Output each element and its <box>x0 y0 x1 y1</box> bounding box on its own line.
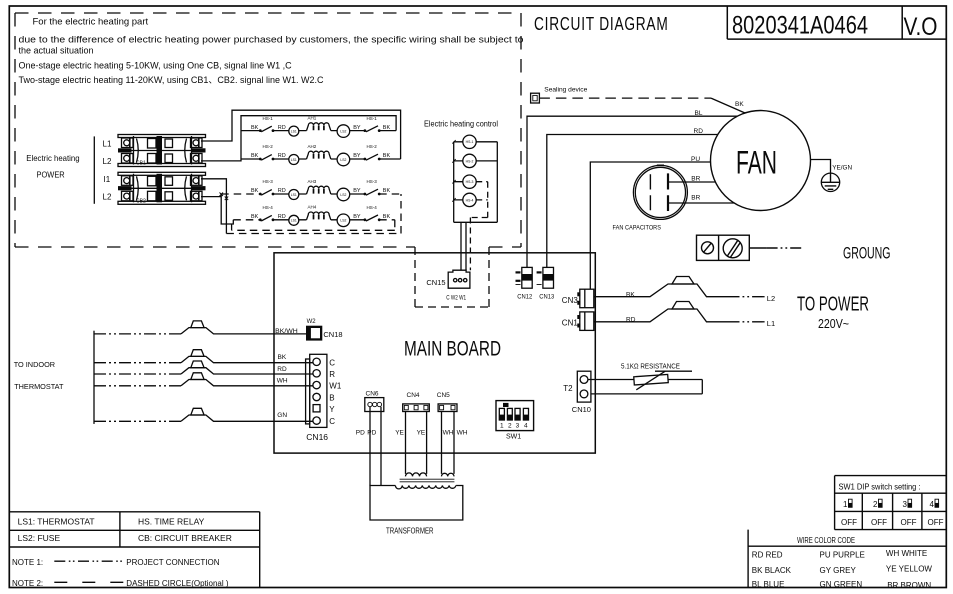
connector CN12 <box>516 267 533 300</box>
title block dividers <box>727 6 946 39</box>
svg-text:BR: BR <box>691 195 700 202</box>
relay row 2: contact HS-2, heater AH2 <box>241 144 401 166</box>
wire RD from CN1 to power L1 <box>594 309 727 322</box>
svg-text:TO INDOOR: TO INDOOR <box>14 360 56 369</box>
svg-text:CN3: CN3 <box>562 296 579 305</box>
svg-text:T2: T2 <box>563 384 573 393</box>
svg-text:C: C <box>329 358 335 367</box>
svg-text:HS-1: HS-1 <box>466 140 474 144</box>
connector CN1 <box>562 312 594 331</box>
svg-text:HS-4: HS-4 <box>263 205 274 210</box>
connector CN3 <box>562 289 594 308</box>
svg-text:AH2: AH2 <box>308 144 317 149</box>
svg-text:HS-3: HS-3 <box>263 179 274 184</box>
svg-text:2: 2 <box>873 500 878 509</box>
svg-text:GROUNG: GROUNG <box>843 243 891 262</box>
svg-text:OFF: OFF <box>901 518 917 527</box>
DIP switch setting table <box>835 476 947 530</box>
svg-text:CN12: CN12 <box>517 293 532 300</box>
transformer body and primary winding <box>370 486 463 521</box>
svg-text:due to the difference of elect: due to the difference of electric heatin… <box>19 35 524 45</box>
svg-text:HS-3: HS-3 <box>466 180 474 184</box>
dashed enclosure of electric-heating optional section <box>15 13 521 247</box>
svg-text:GN: GN <box>277 412 287 419</box>
connector CN4 <box>403 392 430 411</box>
svg-text:For the electric heating part: For the electric heating part <box>33 17 149 28</box>
label leader line <box>655 370 692 372</box>
svg-text:PU: PU <box>691 156 700 163</box>
fan motor circle <box>711 111 811 211</box>
grommet on RD wire <box>672 302 694 310</box>
svg-text:SW1 DIP switch setting :: SW1 DIP switch setting : <box>839 482 921 491</box>
relay row 1: contact HS-1, thermostat LS1, heater AH1, fuse LS2 <box>241 115 396 137</box>
svg-text:the actual situation: the actual situation <box>19 46 94 56</box>
connector CN5 <box>437 392 457 411</box>
svg-text:L1: L1 <box>103 140 112 149</box>
wire BK from CN3 to power L2 <box>594 284 727 297</box>
wire L2 from CB2 to row 4 feed <box>201 194 233 224</box>
svg-text:3: 3 <box>516 423 520 430</box>
secondary winding bumps CN5 <box>442 473 455 476</box>
svg-text:B: B <box>329 394 334 403</box>
svg-text:MAIN BOARD: MAIN BOARD <box>404 337 501 360</box>
svg-text:PD: PD <box>367 430 376 437</box>
dashed return wire of row 3 <box>226 194 401 234</box>
svg-text:8020341A0464: 8020341A0464 <box>732 12 868 40</box>
circuit breaker CB2 <box>118 172 206 204</box>
svg-text:TRANSFORMER: TRANSFORMER <box>386 527 434 536</box>
svg-text:HS-4: HS-4 <box>466 198 474 202</box>
svg-text:YE YELLOW: YE YELLOW <box>886 564 933 573</box>
svg-text:RD: RD <box>626 316 636 323</box>
svg-text:GN GREEN: GN GREEN <box>820 580 863 589</box>
dashed optional bus for HS-3 HS-4 <box>470 182 487 271</box>
svg-text:BK/WH: BK/WH <box>275 328 298 335</box>
thermostat bus <box>93 331 95 424</box>
svg-text:HS-4: HS-4 <box>367 205 378 210</box>
resistor 5.1KOhm body <box>634 374 668 385</box>
relay coil HS-3 <box>463 175 476 188</box>
svg-text:CIRCUIT DIAGRAM: CIRCUIT DIAGRAM <box>534 14 669 34</box>
connector CN6 <box>365 391 384 412</box>
svg-text:SW1: SW1 <box>506 433 521 440</box>
relay coil HS-1 <box>463 135 476 148</box>
svg-text:HS-1: HS-1 <box>263 116 274 121</box>
svg-text:AH4: AH4 <box>308 205 317 210</box>
svg-text:Electric heating: Electric heating <box>26 153 80 163</box>
svg-text:L1: L1 <box>767 319 775 328</box>
svg-text:HS-2: HS-2 <box>263 144 274 149</box>
svg-text:RD: RD <box>277 366 287 373</box>
control left bus wire <box>453 142 455 223</box>
svg-text:CN16: CN16 <box>306 432 328 442</box>
svg-text:3: 3 <box>903 500 908 509</box>
svg-text:WH WHITE: WH WHITE <box>886 549 927 558</box>
bus tick marks <box>452 140 455 202</box>
wire BK to CN16 pin C <box>94 362 181 364</box>
svg-text:Electric heating control: Electric heating control <box>424 119 498 128</box>
relay coil HS-4 <box>463 193 476 206</box>
svg-text:FAN CAPACITORS: FAN CAPACITORS <box>613 225 662 232</box>
wire L2 from CB1 to relay row 1 return <box>201 116 396 161</box>
wire WH to CN16 pin W1 <box>94 385 181 387</box>
svg-text:YE: YE <box>417 430 426 437</box>
svg-text:OFF: OFF <box>928 518 944 527</box>
svg-text:L2: L2 <box>103 157 112 166</box>
svg-text:PU PURPLE: PU PURPLE <box>820 551 865 560</box>
svg-text:Y: Y <box>329 405 335 414</box>
svg-text:W2: W2 <box>307 319 317 325</box>
dashed return wire of row 4 <box>232 220 395 231</box>
svg-text:220V~: 220V~ <box>818 316 849 331</box>
svg-text:CB: CIRCUIT BREAKER: CB: CIRCUIT BREAKER <box>138 533 232 543</box>
svg-text:BK: BK <box>735 101 744 108</box>
svg-text:BK BLACK: BK BLACK <box>752 566 792 575</box>
connector CN18 <box>306 319 343 341</box>
svg-text:BL BLUE: BL BLUE <box>752 580 785 589</box>
sealing device <box>531 86 588 103</box>
svg-text:BR BROWN: BR BROWN <box>887 581 931 590</box>
svg-text:OFF: OFF <box>871 518 887 527</box>
transformer secondary wires from CN5 <box>442 412 455 474</box>
svg-text:WH: WH <box>443 430 454 437</box>
svg-text:CN18: CN18 <box>323 330 342 339</box>
svg-text:NOTE 2:: NOTE 2: <box>12 579 43 588</box>
svg-text:4: 4 <box>524 423 528 430</box>
svg-text:HS-2: HS-2 <box>466 159 474 163</box>
coil stubs <box>454 142 498 200</box>
svg-text:CB2: CB2 <box>136 198 146 204</box>
svg-text:HS-3: HS-3 <box>367 179 378 184</box>
wire RD to CN16 pin R <box>94 373 181 375</box>
svg-text:4: 4 <box>930 500 935 509</box>
svg-text:DASHED CIRCLE(Optional ): DASHED CIRCLE(Optional ) <box>126 579 229 588</box>
svg-text:CN4: CN4 <box>407 392 420 399</box>
svg-text:2: 2 <box>508 423 512 430</box>
svg-text:Two-stage electric heating 11-: Two-stage electric heating 11-20KW, usin… <box>19 75 324 85</box>
wire color code table <box>748 530 946 588</box>
svg-text:TO POWER: TO POWER <box>797 293 869 315</box>
ground terminal block <box>697 235 804 260</box>
ground wire with dash-dot <box>749 247 766 249</box>
transformer secondary wires from CN4 <box>406 412 427 474</box>
wire L1 from CB1 to relay row 2 return <box>201 110 401 159</box>
main board outline <box>274 253 595 453</box>
svg-text:CN6: CN6 <box>366 391 379 398</box>
svg-text:CB1: CB1 <box>136 161 146 167</box>
control right bus wire <box>454 142 498 223</box>
svg-text:W1: W1 <box>329 382 342 391</box>
svg-text:YE/GN: YE/GN <box>832 165 852 172</box>
svg-text:BK: BK <box>278 354 287 361</box>
DIP switch SW1 <box>496 401 534 441</box>
dashed box around CN15 <box>415 247 489 307</box>
svg-text:L2: L2 <box>767 294 775 303</box>
svg-text:WH: WH <box>457 430 468 437</box>
wire PU from CN3 to fan <box>590 162 710 289</box>
svg-text:FAN: FAN <box>736 144 777 180</box>
svg-text:CN1: CN1 <box>562 319 579 328</box>
svg-text:HS. TIME RELAY: HS. TIME RELAY <box>138 516 205 526</box>
svg-text:I1: I1 <box>104 175 111 184</box>
svg-text:1: 1 <box>500 423 504 430</box>
svg-text:LS1: THERMOSTAT: LS1: THERMOSTAT <box>18 516 95 526</box>
svg-text:C W2 W1: C W2 W1 <box>446 294 466 301</box>
svg-text:HS-2: HS-2 <box>367 144 378 149</box>
svg-text:BR: BR <box>691 175 700 182</box>
connector CN15 <box>448 270 470 288</box>
svg-text:One-stage electric heating 5-1: One-stage electric heating 5-10KW, using… <box>19 61 293 71</box>
svg-text:GY GREY: GY GREY <box>820 566 857 575</box>
relay row 3 (optional, dashed): contact HS-3, heater AH3 <box>221 179 401 201</box>
dashed wire from sealing device (BK) <box>539 97 711 99</box>
svg-text:R: R <box>329 370 335 379</box>
svg-text:NOTE 1:: NOTE 1: <box>12 558 43 567</box>
fan capacitors <box>633 165 687 219</box>
svg-text:OFF: OFF <box>841 518 857 527</box>
relay row 4 (optional, dashed): contact HS-4, heater AH4 <box>233 205 394 227</box>
wire RD from CN13 to fan <box>547 135 718 268</box>
wire BR lower from capacitor to fan <box>668 202 734 204</box>
signal wires C W2 W1 down to CN15 <box>461 222 466 270</box>
svg-text:Sealing device: Sealing device <box>544 86 588 93</box>
wire BR upper from capacitor to fan <box>668 181 715 183</box>
svg-text:BK: BK <box>626 291 635 298</box>
svg-text:CN10: CN10 <box>572 405 591 414</box>
svg-text:CN5: CN5 <box>437 392 450 399</box>
svg-text:RD: RD <box>694 128 704 135</box>
svg-text:5.1KΩ RESISTANCE: 5.1KΩ RESISTANCE <box>621 363 680 370</box>
svg-text:WH: WH <box>277 378 288 385</box>
svg-text:POWER: POWER <box>37 170 65 180</box>
secondary winding bumps CN4 <box>406 473 427 477</box>
wire GN to CN16 pin C <box>94 420 181 422</box>
relay coil HS-2 <box>463 154 476 167</box>
wire YE/GN to earth <box>810 160 830 174</box>
wire I1 from CB2 <box>201 179 226 234</box>
svg-text:PROJECT CONNECTION: PROJECT CONNECTION <box>126 558 219 567</box>
svg-text:AH3: AH3 <box>308 179 317 184</box>
svg-text:RD RED: RD RED <box>752 551 783 560</box>
connector CN10 with terminal T2 <box>563 371 591 414</box>
svg-text:PD: PD <box>356 430 365 437</box>
svg-text:C: C <box>329 417 335 426</box>
svg-text:HS-1: HS-1 <box>367 116 378 121</box>
svg-text:V.O: V.O <box>904 13 938 41</box>
wire BK/WH to CN18 <box>94 333 181 335</box>
earth ground symbol <box>821 173 839 191</box>
wire BL from CN12 to fan <box>527 116 737 267</box>
svg-text:AH1: AH1 <box>308 115 317 120</box>
svg-text:WIRE COLOR CODE: WIRE COLOR CODE <box>797 536 855 545</box>
svg-text:YE: YE <box>395 430 404 437</box>
svg-text:1: 1 <box>843 500 848 509</box>
grommet on BK wire <box>672 277 694 285</box>
svg-text:LS2: FUSE: LS2: FUSE <box>18 533 61 543</box>
legend table <box>9 512 259 588</box>
svg-text:CN15: CN15 <box>426 278 445 287</box>
svg-text:CN13: CN13 <box>539 293 554 300</box>
transformer core <box>400 479 455 482</box>
svg-text:L2: L2 <box>103 193 112 202</box>
circuit breaker CB1 <box>118 135 206 167</box>
svg-text:THERMOSTAT: THERMOSTAT <box>14 382 64 391</box>
CN16 pin labels <box>329 358 342 426</box>
svg-text:BL: BL <box>695 110 703 117</box>
transformer primary wires from CN6 <box>370 407 381 486</box>
junction marks <box>220 193 229 201</box>
thermistor diagonal <box>636 371 665 390</box>
connector CN16 <box>306 354 327 427</box>
connector CN13 <box>537 267 555 300</box>
wires to resistor <box>588 380 702 394</box>
label bracket line <box>93 136 95 203</box>
